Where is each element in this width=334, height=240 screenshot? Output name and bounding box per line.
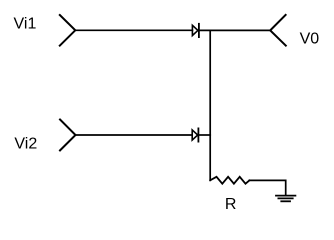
wire Vi1 input to diode D1 anode xyxy=(75,29,192,31)
wire Vi2 input to diode D2 anode xyxy=(76,134,193,136)
wire D1 cathode to output node xyxy=(199,29,270,31)
svg-text:R: R xyxy=(225,196,237,213)
wire vertical from output node down to resistor xyxy=(209,30,211,180)
svg-text:Vi2: Vi2 xyxy=(14,135,37,152)
output terminal V0 xyxy=(270,15,286,46)
diode D2 xyxy=(192,128,198,141)
input terminal Vi2 xyxy=(60,120,76,151)
wire resistor to ground xyxy=(249,180,285,195)
input terminal Vi1 xyxy=(60,15,76,46)
diode D1 xyxy=(192,24,199,37)
resistor R xyxy=(210,177,249,184)
wire D2 cathode to node xyxy=(198,134,210,136)
svg-text:Vi1: Vi1 xyxy=(14,16,37,33)
svg-text:V0: V0 xyxy=(300,31,320,48)
ground xyxy=(276,196,295,202)
